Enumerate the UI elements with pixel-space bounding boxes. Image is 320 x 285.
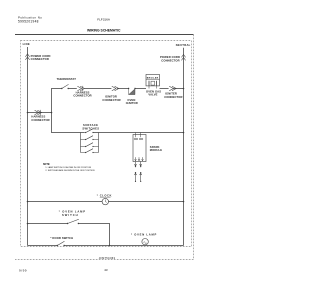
svg-text:IGNITOR: IGNITOR <box>105 95 117 99</box>
svg-text:* OVEN LAMP: * OVEN LAMP <box>59 210 86 214</box>
svg-text:WIRING SCHEMATIC: WIRING SCHEMATIC <box>87 29 121 33</box>
svg-text:HARNESS: HARNESS <box>31 115 45 119</box>
svg-text:CONNECTOR: CONNECTOR <box>161 58 179 62</box>
svg-text:IGNITOR: IGNITOR <box>126 101 138 105</box>
svg-text:THERMOSTAT: THERMOSTAT <box>57 77 77 81</box>
svg-text:MODULE: MODULE <box>150 148 162 152</box>
svg-text:SWITCH: SWITCH <box>62 213 79 217</box>
svg-text:9/99: 9/99 <box>19 268 27 272</box>
svg-text:43: 43 <box>104 268 108 272</box>
svg-text:2. SWITCHES ARE SHOWN IN THE O: 2. SWITCHES ARE SHOWN IN THE OFF POSITIO… <box>45 169 95 172</box>
svg-text:* DOOR SWITCH: * DOOR SWITCH <box>50 236 73 240</box>
svg-text:* OVEN LAMP: * OVEN LAMP <box>131 233 157 237</box>
svg-text:LINE: LINE <box>23 42 30 46</box>
svg-text:CONNECTOR: CONNECTOR <box>73 94 91 98</box>
svg-text:VALVE: VALVE <box>148 93 157 97</box>
svg-text:CONNECTOR: CONNECTOR <box>31 57 49 61</box>
svg-text:NOTE:: NOTE: <box>43 164 50 166</box>
svg-text:NEUTRAL: NEUTRAL <box>176 43 191 47</box>
svg-text:CONNECTOR: CONNECTOR <box>164 95 182 99</box>
svg-text:BROILER: BROILER <box>147 77 159 79</box>
svg-text:CONNECTOR: CONNECTOR <box>31 118 49 122</box>
svg-text:CONNECTOR: CONNECTOR <box>102 98 120 102</box>
svg-text:* CLOCK: * CLOCK <box>97 193 112 197</box>
svg-text:SURFACE: SURFACE <box>83 123 98 127</box>
svg-text:FLF316A: FLF316A <box>97 18 111 22</box>
svg-text:1. LAMP SWITCH IS SHOWN IN OFF: 1. LAMP SWITCH IS SHOWN IN OFF POSITION <box>45 166 91 169</box>
svg-text:JFM75C063: JFM75C063 <box>99 256 116 260</box>
svg-text:5995201948: 5995201948 <box>18 19 39 23</box>
